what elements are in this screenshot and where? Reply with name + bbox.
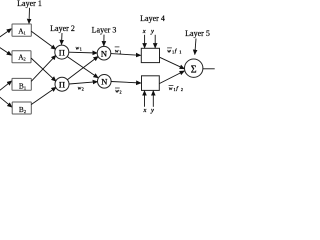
svg-text:Layer 3: Layer 3: [92, 26, 117, 35]
svg-text:w: w: [169, 86, 173, 92]
svg-text:2: 2: [24, 109, 26, 114]
svg-text:Layer 2: Layer 2: [50, 24, 75, 33]
svg-text:1: 1: [24, 31, 26, 36]
svg-text:y: y: [150, 107, 154, 114]
svg-text:Π: Π: [59, 48, 65, 58]
svg-text:N: N: [101, 48, 107, 58]
svg-text:2: 2: [82, 87, 84, 92]
svg-text:w: w: [167, 49, 171, 55]
svg-text:1: 1: [24, 86, 26, 91]
svg-text:Layer 4: Layer 4: [140, 14, 165, 23]
svg-text:1: 1: [172, 50, 174, 55]
svg-text:2: 2: [181, 87, 183, 92]
svg-text:2: 2: [120, 90, 122, 95]
svg-text:1: 1: [80, 46, 82, 51]
svg-text:1: 1: [179, 50, 181, 55]
svg-text:Layer 1: Layer 1: [17, 0, 42, 8]
svg-text:x: x: [142, 28, 146, 35]
svg-text:Π: Π: [59, 80, 65, 90]
svg-text:N: N: [101, 77, 107, 87]
svg-text:Layer 5: Layer 5: [185, 29, 210, 38]
svg-text:x: x: [143, 107, 147, 114]
svg-text:Σ: Σ: [191, 65, 197, 76]
svg-text:1: 1: [174, 87, 176, 92]
svg-text:y: y: [150, 28, 154, 35]
svg-text:2: 2: [24, 57, 26, 62]
